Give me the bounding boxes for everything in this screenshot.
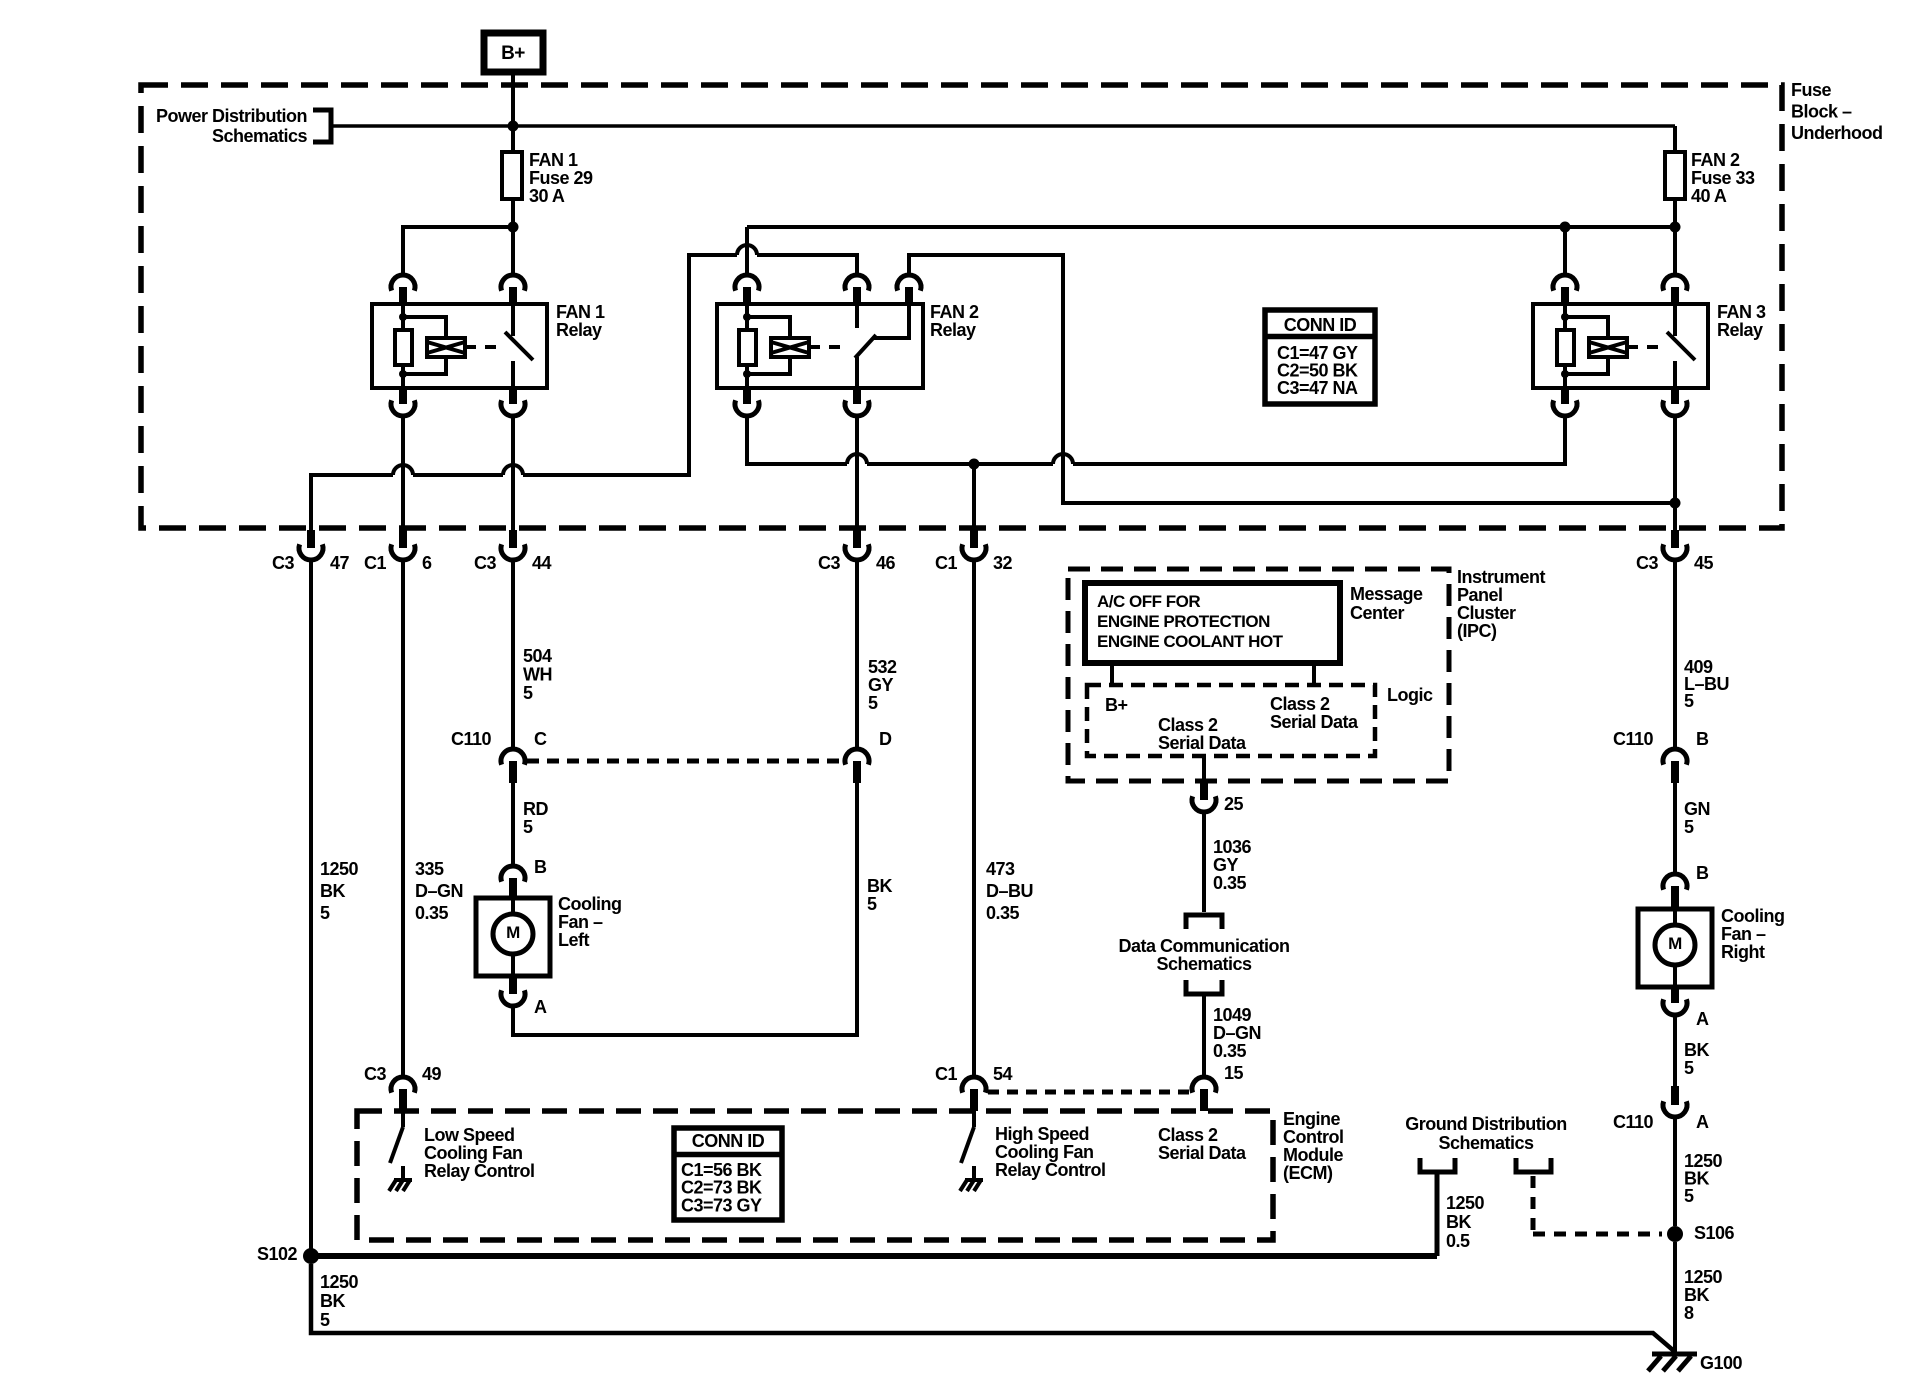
wire B+ down to Fuse 29 <box>511 72 515 152</box>
svg-text:45: 45 <box>1694 553 1714 573</box>
label low speed cooling fan relay control <box>424 1125 535 1181</box>
svg-text:GY: GY <box>1213 855 1239 875</box>
svg-text:M: M <box>1668 934 1682 953</box>
svg-text:C3=47 NA: C3=47 NA <box>1277 378 1358 398</box>
svg-text:C110: C110 <box>1613 1112 1654 1132</box>
label wire 1250 BK 8 <box>1684 1267 1723 1323</box>
svg-text:CONN ID: CONN ID <box>1284 315 1357 335</box>
connector pin FAN1 relay 86 top <box>391 275 415 305</box>
svg-text:532: 532 <box>868 657 897 677</box>
splice S102 <box>257 1244 319 1264</box>
wire S106 to G100 <box>1673 1242 1677 1352</box>
wire logic to IPC pin 25 <box>1202 756 1206 781</box>
svg-text:54: 54 <box>993 1064 1013 1084</box>
connector pin FAN3 relay 86 top <box>1553 275 1577 305</box>
relay FAN 1 <box>372 302 605 388</box>
connector pin FAN1 relay 85 bottom <box>391 388 415 416</box>
wire C3 47 to FAN2 30 <box>311 255 857 530</box>
svg-text:46: 46 <box>876 553 896 573</box>
svg-text:C3: C3 <box>364 1064 386 1084</box>
svg-text:Power Distribution: Power Distribution <box>156 106 307 126</box>
wire fan-left A to C110 D <box>513 783 857 1035</box>
off-page arrow from data comm bottom <box>1186 980 1222 994</box>
svg-text:M: M <box>506 923 520 942</box>
svg-text:504: 504 <box>523 646 552 666</box>
svg-text:Serial Data: Serial Data <box>1158 1143 1247 1163</box>
svg-text:473: 473 <box>986 859 1015 879</box>
splice S106 <box>1667 1223 1735 1243</box>
label ground distribution schematics <box>1405 1114 1566 1153</box>
connector pin FAN2 relay 86 top <box>735 275 759 305</box>
svg-text:BK: BK <box>320 1291 345 1311</box>
wire GN to fan right <box>1673 783 1677 874</box>
wire power distribution bus <box>331 124 1675 128</box>
dashed connector line C110 <box>527 759 843 764</box>
label node B+ logic <box>1105 695 1128 715</box>
svg-text:Cooling Fan: Cooling Fan <box>424 1143 522 1163</box>
connector pin FAN3 relay 85 bottom <box>1553 388 1577 416</box>
svg-text:Underhood: Underhood <box>1791 123 1883 143</box>
engine control module enclosure <box>357 1111 1273 1240</box>
ground high speed driver <box>960 1166 983 1191</box>
hop relay-control wire over C3-46 wire <box>847 454 867 464</box>
label G100 <box>1700 1353 1743 1373</box>
wire FAN2 coil drop <box>745 227 749 275</box>
svg-text:RD: RD <box>523 799 548 819</box>
junction C1 32 branch <box>969 459 980 470</box>
wire fuse33 to FAN3 relay <box>1673 199 1677 275</box>
connector C3 pin 44 <box>474 530 552 573</box>
wire FAN1 85 to C1 6 <box>401 416 405 530</box>
svg-text:0.5: 0.5 <box>1446 1231 1470 1251</box>
svg-text:FAN 2: FAN 2 <box>930 302 979 322</box>
connector pin FAN2 relay 87 bottom <box>845 388 869 416</box>
svg-text:BK: BK <box>1684 1040 1709 1060</box>
svg-text:5: 5 <box>867 894 877 914</box>
wire circuit 473 D-BU to ECM 54 <box>972 560 976 1077</box>
svg-text:A: A <box>1696 1112 1709 1132</box>
wire message to logic left <box>1110 663 1114 685</box>
off-page arrow ground distribution 2 <box>1516 1158 1551 1172</box>
connector ECM pin 15 <box>1192 1063 1244 1111</box>
label Message Center <box>1350 584 1423 623</box>
connector fan-right terminal A <box>1663 987 1709 1029</box>
svg-text:1250: 1250 <box>1446 1193 1485 1213</box>
hop C3-47 wire over C1-6 wire <box>393 465 413 475</box>
svg-text:Schematics: Schematics <box>212 126 308 146</box>
wire S102 to G100 <box>311 1264 1674 1351</box>
label wire 1250 BK 5 right <box>1684 1151 1723 1206</box>
svg-text:Module: Module <box>1283 1145 1343 1165</box>
svg-text:Engine: Engine <box>1283 1109 1340 1129</box>
svg-text:High Speed: High Speed <box>995 1124 1089 1144</box>
connector pin FAN1 relay 30 top <box>501 275 525 305</box>
connector C3 pin 46 <box>818 530 896 573</box>
connector C110 cavity D <box>845 729 892 783</box>
svg-text:Panel: Panel <box>1457 585 1503 605</box>
label Engine Control Module ECM <box>1283 1109 1343 1183</box>
svg-text:Fuse: Fuse <box>1791 80 1832 100</box>
svg-text:Schematics: Schematics <box>1438 1133 1534 1153</box>
label cooling fan left <box>558 894 621 950</box>
logic block <box>1087 685 1375 756</box>
svg-text:FAN 2: FAN 2 <box>1691 150 1740 170</box>
connector C110 cavity C <box>451 729 547 783</box>
hop relay-control wire over fan-right wire <box>1053 454 1073 464</box>
svg-text:Fan –: Fan – <box>1721 924 1766 944</box>
svg-text:Schematics: Schematics <box>1156 954 1252 974</box>
svg-text:Cooling: Cooling <box>558 894 621 914</box>
svg-text:C110: C110 <box>1613 729 1654 749</box>
svg-text:44: 44 <box>532 553 552 573</box>
wire circuit 532 GY to C110 D <box>855 560 859 749</box>
conn id table ECM <box>674 1128 782 1220</box>
label wire 473 D-BU 0.35 <box>986 859 1033 923</box>
svg-text:BK: BK <box>320 881 345 901</box>
label Logic <box>1387 685 1433 705</box>
svg-text:G100: G100 <box>1700 1353 1743 1373</box>
connector pin FAN1 relay 87 bottom <box>501 388 525 416</box>
svg-text:Relay: Relay <box>556 320 602 340</box>
svg-text:5: 5 <box>523 817 533 837</box>
svg-text:Ground Distribution: Ground Distribution <box>1405 1114 1566 1134</box>
label wire 409 L-BU 5 <box>1684 657 1729 711</box>
wire RD 5 to fan left <box>511 783 515 866</box>
connector ECM C1 pin 54 <box>935 1064 1013 1111</box>
fuse F33 FAN 2 <box>1665 150 1755 206</box>
wire circuit 1049 D-GN <box>1202 994 1206 1077</box>
svg-text:15: 15 <box>1224 1063 1244 1083</box>
svg-text:CONN ID: CONN ID <box>692 1131 765 1151</box>
svg-text:Message: Message <box>1350 584 1423 604</box>
svg-text:C: C <box>534 729 547 749</box>
wire branch to FAN1 coil <box>403 227 513 275</box>
svg-text:A: A <box>534 997 547 1017</box>
hop C3-47 wire over C3-44 wire <box>503 465 523 475</box>
svg-text:Relay: Relay <box>1717 320 1763 340</box>
label cooling fan right <box>1721 906 1784 962</box>
wire bus to FAN2 area <box>747 225 1675 229</box>
svg-text:Instrument: Instrument <box>1457 567 1546 587</box>
conn id table fuse block <box>1265 310 1375 404</box>
connector IPC pin 25 <box>1192 781 1244 814</box>
instrument panel cluster enclosure <box>1068 569 1449 781</box>
svg-text:C110: C110 <box>451 729 492 749</box>
fuse F29 FAN 1 <box>502 150 593 206</box>
label wire RD 5 <box>523 799 548 837</box>
switch high speed relay control <box>961 1111 974 1163</box>
label wire GN 5 <box>1684 799 1710 837</box>
label Fuse Block - Underhood <box>1791 80 1883 143</box>
svg-text:32: 32 <box>993 553 1013 573</box>
message center display <box>1085 583 1340 663</box>
svg-text:49: 49 <box>422 1064 442 1084</box>
connector C3 pin 47 <box>272 530 350 573</box>
label class 2 serial data left <box>1158 715 1247 753</box>
svg-text:1250: 1250 <box>320 859 359 879</box>
label wire 1250 BK 5 ground run <box>320 1272 359 1330</box>
svg-text:1250: 1250 <box>320 1272 359 1292</box>
wire circuit 335 D-GN to ECM 49 <box>401 560 405 1077</box>
svg-text:BK: BK <box>1684 1285 1709 1305</box>
wire bus corner to fuse33 <box>1673 126 1677 152</box>
svg-text:C3: C3 <box>1636 553 1658 573</box>
svg-text:FAN 1: FAN 1 <box>529 150 578 170</box>
svg-text:Logic: Logic <box>1387 685 1433 705</box>
svg-text:D–BU: D–BU <box>986 881 1033 901</box>
connector pin FAN2 relay 85 bottom <box>735 388 759 416</box>
svg-text:B: B <box>534 857 547 877</box>
wire fuse29 to FAN1 relay <box>511 199 515 275</box>
wire circuit 1250 BK to S102 <box>309 560 313 1250</box>
wire FAN2 87 to C3 46 <box>855 416 859 530</box>
relay FAN 2 <box>717 302 979 388</box>
svg-text:FAN 3: FAN 3 <box>1717 302 1766 322</box>
wire circuit 409 L-BU to C110 B <box>1673 560 1677 749</box>
svg-text:D: D <box>879 729 892 749</box>
svg-text:C3: C3 <box>272 553 294 573</box>
wire junction down to C1 32 <box>972 464 976 530</box>
label wire BK 5 left <box>867 876 892 914</box>
connector pin FAN2 relay 30 top <box>845 275 869 305</box>
svg-text:47: 47 <box>330 553 350 573</box>
label wire BK 5 right <box>1684 1040 1709 1078</box>
connector fan-left terminal B <box>501 857 547 898</box>
dashed wire class 2 serial data <box>988 1090 1190 1095</box>
svg-text:Data Communication: Data Communication <box>1118 936 1289 956</box>
svg-text:Relay Control: Relay Control <box>424 1161 535 1181</box>
label wire 1036 GY 0.35 <box>1213 837 1252 893</box>
svg-text:GN: GN <box>1684 799 1710 819</box>
connector C3 pin 45 <box>1636 530 1714 573</box>
svg-text:30 A: 30 A <box>529 186 565 206</box>
connector fan-left terminal A <box>501 976 547 1017</box>
wire FAN2 87a to FAN3 87 <box>909 255 1675 503</box>
ground low speed driver <box>389 1166 412 1191</box>
svg-text:Left: Left <box>558 930 590 950</box>
svg-text:5: 5 <box>868 693 878 713</box>
switch low speed relay control <box>390 1111 403 1163</box>
motor cooling fan left <box>476 898 550 976</box>
svg-text:Cluster: Cluster <box>1457 603 1516 623</box>
svg-text:C3: C3 <box>818 553 840 573</box>
svg-text:Center: Center <box>1350 603 1405 623</box>
svg-text:Block –: Block – <box>1791 102 1852 122</box>
svg-text:C1: C1 <box>935 1064 957 1084</box>
svg-text:5: 5 <box>1684 1058 1694 1078</box>
label high speed cooling fan relay control <box>995 1124 1106 1180</box>
junction fuse33 output <box>1670 222 1681 233</box>
svg-text:0.35: 0.35 <box>1213 1041 1247 1061</box>
connector ECM C3 pin 49 <box>364 1064 442 1111</box>
svg-text:5: 5 <box>320 1310 330 1330</box>
ground G100 <box>1648 1354 1697 1371</box>
connector C1 pin 32 <box>935 530 1013 573</box>
off-page arrow to data comm top <box>1186 915 1222 929</box>
svg-text:Serial Data: Serial Data <box>1270 712 1359 732</box>
connector C110 cavity B <box>1613 729 1709 783</box>
fuse block - underhood enclosure <box>141 85 1782 528</box>
label class 2 serial data right <box>1270 694 1359 732</box>
connector pin FAN3 relay 30 top <box>1663 275 1687 305</box>
svg-text:A: A <box>1696 1009 1709 1029</box>
label wire 1250 BK 0.5 <box>1446 1193 1485 1251</box>
svg-text:6: 6 <box>422 553 432 573</box>
svg-text:0.35: 0.35 <box>1213 873 1247 893</box>
svg-text:5: 5 <box>523 683 533 703</box>
junction FAN3 coil feed <box>1560 222 1571 233</box>
svg-text:1250: 1250 <box>1684 1267 1723 1287</box>
wire ground distribution drop <box>1435 1172 1440 1256</box>
label Instrument Panel Cluster IPC <box>1457 567 1546 641</box>
svg-text:40 A: 40 A <box>1691 186 1727 206</box>
svg-text:(IPC): (IPC) <box>1457 621 1497 641</box>
svg-text:Serial Data: Serial Data <box>1158 733 1247 753</box>
label wire 1049 D-GN 0.35 <box>1213 1005 1261 1061</box>
svg-text:Cooling: Cooling <box>1721 906 1784 926</box>
svg-text:25: 25 <box>1224 794 1244 814</box>
svg-text:Right: Right <box>1721 942 1765 962</box>
svg-text:S106: S106 <box>1694 1223 1735 1243</box>
motor cooling fan right <box>1638 909 1712 987</box>
svg-text:1036: 1036 <box>1213 837 1252 857</box>
label data communication schematics <box>1118 936 1289 974</box>
svg-text:D–GN: D–GN <box>415 881 463 901</box>
svg-text:Low Speed: Low Speed <box>424 1125 515 1145</box>
label wire 504 WH 5 <box>523 646 552 703</box>
svg-text:Fan –: Fan – <box>558 912 603 932</box>
svg-text:Fuse 33: Fuse 33 <box>1691 168 1755 188</box>
svg-text:B: B <box>1696 729 1709 749</box>
svg-text:Class 2: Class 2 <box>1270 694 1330 714</box>
svg-text:FAN 1: FAN 1 <box>556 302 605 322</box>
svg-text:ENGINE COOLANT HOT: ENGINE COOLANT HOT <box>1097 632 1284 651</box>
junction FAN3 87 / fan-right feed <box>1670 498 1681 509</box>
svg-text:BK: BK <box>1446 1212 1471 1232</box>
wire circuit 1036 GY upper <box>1202 812 1206 912</box>
wire FAN3 coil drop <box>1563 227 1567 275</box>
wire circuit 504 WH to C110 C <box>511 560 515 749</box>
junction fuse29 branch <box>508 222 519 233</box>
connector C110 cavity A <box>1613 1086 1709 1132</box>
connector pin FAN2 relay 87a top <box>897 275 921 305</box>
connector fan-right terminal B <box>1663 863 1709 909</box>
wire FAN3 87 to C3 45 <box>1673 416 1677 530</box>
wire circuit 1250 BK 5 right <box>1673 1117 1677 1226</box>
wire FAN1 87 to C3 44 <box>511 416 515 530</box>
svg-text:Relay Control: Relay Control <box>995 1160 1106 1180</box>
svg-text:0.35: 0.35 <box>986 903 1020 923</box>
wire fan-right A to C110 A <box>1673 1015 1677 1086</box>
junction bus / fuse29 feed <box>508 121 519 132</box>
wire message to logic right <box>1312 663 1316 685</box>
power distribution schematics tag <box>156 106 331 146</box>
relay FAN 3 <box>1533 302 1766 388</box>
svg-text:1049: 1049 <box>1213 1005 1252 1025</box>
svg-text:5: 5 <box>320 903 330 923</box>
svg-text:Relay: Relay <box>930 320 976 340</box>
svg-text:B: B <box>1696 863 1709 883</box>
svg-text:GY: GY <box>868 675 894 695</box>
label class 2 serial data ECM <box>1158 1125 1247 1163</box>
svg-text:Class 2: Class 2 <box>1158 715 1218 735</box>
svg-text:ENGINE PROTECTION: ENGINE PROTECTION <box>1097 612 1270 631</box>
svg-text:0.35: 0.35 <box>415 903 449 923</box>
wire FAN2 85 / FAN3 85 to C1 32 <box>747 416 1565 464</box>
svg-text:C3: C3 <box>474 553 496 573</box>
svg-text:5: 5 <box>1684 1186 1694 1206</box>
svg-text:B+: B+ <box>501 43 525 64</box>
svg-text:Fuse 29: Fuse 29 <box>529 168 593 188</box>
svg-text:A/C OFF FOR: A/C OFF FOR <box>1097 592 1200 611</box>
wire S102 to ground distribution <box>311 1253 1437 1259</box>
svg-text:335: 335 <box>415 859 444 879</box>
off-page arrow ground distribution 1 <box>1420 1158 1455 1172</box>
svg-text:8: 8 <box>1684 1303 1694 1323</box>
hop C3-47 wire over FAN2 coil wire <box>737 245 757 255</box>
svg-text:WH: WH <box>523 665 552 685</box>
svg-text:BK: BK <box>867 876 892 896</box>
svg-text:D–GN: D–GN <box>1213 1023 1261 1043</box>
svg-text:5: 5 <box>1684 817 1694 837</box>
label wire 532 GY 5 <box>868 657 897 713</box>
connector C1 pin 6 <box>364 530 432 573</box>
svg-text:C1: C1 <box>935 553 957 573</box>
svg-text:Control: Control <box>1283 1127 1343 1147</box>
power node B+ <box>484 33 543 72</box>
svg-text:C3=73 GY: C3=73 GY <box>681 1195 762 1215</box>
connector pin FAN3 relay 87 bottom <box>1663 388 1687 416</box>
label wire 1250 BK 5 left <box>320 859 359 923</box>
svg-text:(ECM): (ECM) <box>1283 1163 1333 1183</box>
svg-text:Class 2: Class 2 <box>1158 1125 1218 1145</box>
label wire 335 D-GN 0.35 <box>415 859 463 923</box>
svg-text:C1: C1 <box>364 553 386 573</box>
svg-text:B+: B+ <box>1105 695 1128 715</box>
svg-text:Cooling Fan: Cooling Fan <box>995 1142 1093 1162</box>
svg-text:5: 5 <box>1684 691 1694 711</box>
svg-text:S102: S102 <box>257 1244 298 1264</box>
dashed wire to S106 <box>1533 1176 1662 1234</box>
